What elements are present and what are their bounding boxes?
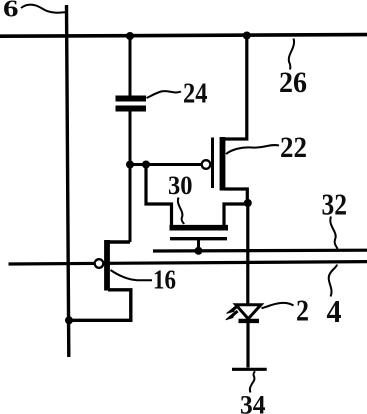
scan line 32 (upper horizontal line) <box>153 249 367 253</box>
data line 6 (vertical select/data line) <box>67 5 69 357</box>
label 16 with leader <box>111 265 177 295</box>
node at rail and transistor 22 drain branch <box>243 32 251 40</box>
capacitor 24 <box>116 99 147 109</box>
svg-text:34: 34 <box>240 391 266 414</box>
wire gate node to transistor 22 gate bubble <box>130 163 202 166</box>
wire from rail down to capacitor 24 <box>129 36 132 96</box>
node at gate wire junction <box>126 161 134 169</box>
svg-text:32: 32 <box>322 187 348 222</box>
cathode terminal 34 <box>232 368 267 371</box>
label 34 with leader <box>240 371 266 414</box>
node at element 30 left branch <box>142 161 150 169</box>
svg-text:4: 4 <box>327 293 342 329</box>
svg-text:26: 26 <box>279 67 307 99</box>
svg-text:30: 30 <box>168 171 193 200</box>
label 4 with leader <box>327 265 342 330</box>
wire from capacitor 24 down to transistor 16 drain <box>129 112 132 243</box>
wire from node down to LED 2 <box>246 203 249 304</box>
light emission arrows of LED 2 <box>226 305 239 320</box>
label 6 with leader <box>3 0 65 23</box>
transistor 16 (switch transistor, PMOS) <box>69 240 131 320</box>
svg-text:16: 16 <box>153 265 176 295</box>
transistor 30 (MOS device, gate below) <box>146 165 249 251</box>
label 30 with leader <box>168 171 193 224</box>
svg-text:22: 22 <box>280 131 307 164</box>
svg-text:2: 2 <box>296 293 309 328</box>
svg-text:24: 24 <box>183 79 208 110</box>
node at data line and transistor 16 source <box>65 316 73 324</box>
label 26 with leader <box>279 39 307 100</box>
scan line 4 (lower horizontal line) <box>9 262 367 264</box>
LED 2 (organic light emitting diode) <box>236 305 261 321</box>
label 32 with leader <box>322 187 348 250</box>
label 24 with leader <box>147 79 208 110</box>
svg-text:6: 6 <box>3 0 19 23</box>
node at transistor 22 source / OLED anode <box>244 199 252 207</box>
transistor 22 (drive transistor, PMOS) <box>202 37 248 203</box>
node where transistor 30 gate meets line 32 <box>195 247 203 255</box>
node at rail and capacitor branch <box>126 32 134 40</box>
label 22 with leader <box>226 131 307 164</box>
power line 26 (top horizontal rail) <box>0 35 367 37</box>
label 2 with leader <box>262 293 310 328</box>
wire from LED 2 cathode down to terminal 34 <box>246 323 249 368</box>
